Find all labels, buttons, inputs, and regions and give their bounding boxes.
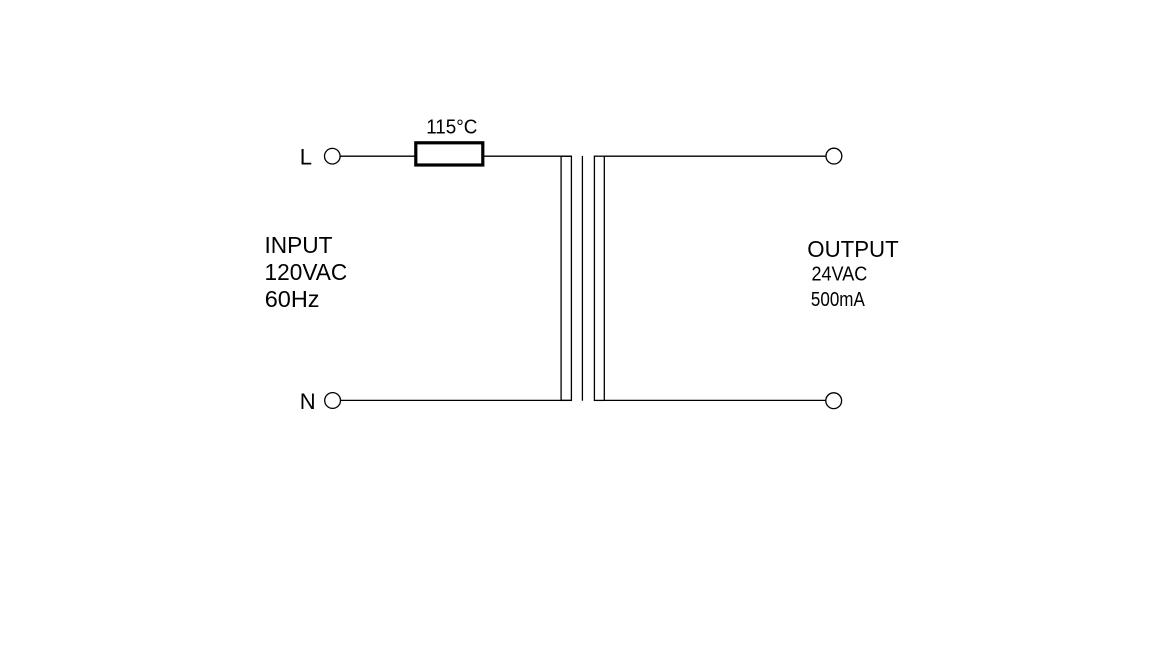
terminal circle L (325, 148, 341, 164)
wire transformer T1 secondary to output terminal bottom (604, 399, 825, 401)
wire N terminal to transformer T1 primary (340, 399, 571, 401)
wire fuse F1 to transformer T1 primary (483, 155, 571, 157)
wire transformer T1 secondary to output terminal top (604, 155, 826, 157)
transformer T1 primary winding (561, 156, 571, 400)
svg-text:120VAC: 120VAC (265, 259, 348, 285)
terminal circle N (325, 393, 341, 409)
svg-text:24VAC: 24VAC (812, 264, 868, 286)
transformer T1 core (581, 156, 583, 401)
svg-text:N: N (300, 389, 316, 414)
svg-text:INPUT: INPUT (265, 232, 333, 258)
thermal fuse F1 115C body (416, 143, 483, 165)
output terminal circle top (826, 148, 842, 164)
transformer T1 secondary winding (594, 156, 604, 400)
svg-text:60Hz: 60Hz (265, 286, 320, 312)
svg-text:500mA: 500mA (811, 287, 865, 310)
wire L terminal to fuse F1 (340, 155, 416, 157)
output terminal circle bottom (826, 393, 842, 409)
svg-text:115°C: 115°C (426, 116, 477, 139)
svg-text:L: L (300, 145, 312, 170)
svg-text:OUTPUT: OUTPUT (807, 235, 898, 262)
